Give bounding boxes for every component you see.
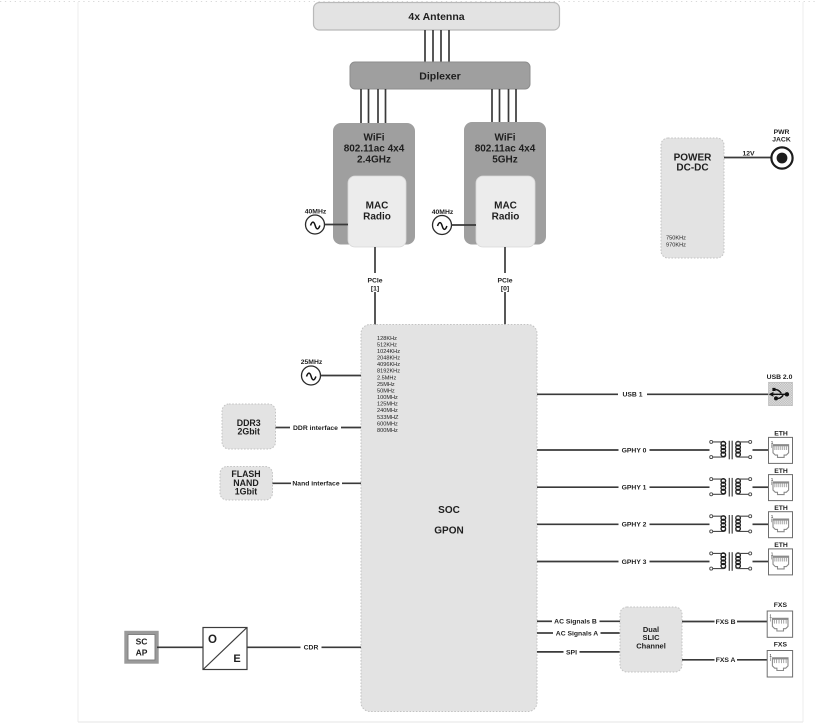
svg-text:AC Signals B: AC Signals B xyxy=(554,619,597,626)
svg-text:750KHz: 750KHz xyxy=(666,235,686,241)
wire: FXS B left segment xyxy=(682,621,715,623)
svg-text:128KHz: 128KHz xyxy=(377,336,397,342)
svg-text:12V: 12V xyxy=(742,150,755,157)
wire: diplexer to WiFi 5GHz 4 xyxy=(515,89,517,122)
wire: antenna feed 3 xyxy=(440,30,442,62)
svg-text:PCIe: PCIe xyxy=(367,277,382,284)
svg-text:25MHz: 25MHz xyxy=(377,382,395,388)
svg-text:600MHz: 600MHz xyxy=(377,421,398,427)
svg-text:GPHY 3: GPHY 3 xyxy=(622,559,647,566)
svg-text:AP: AP xyxy=(136,647,148,657)
svg-text:CDR: CDR xyxy=(304,645,319,652)
block: WiFi 802.11ac 4x4 5GHz xyxy=(464,122,546,245)
connector: SC AP optical connector xyxy=(126,633,157,663)
svg-text:1: 1 xyxy=(771,514,774,519)
wire: 12V power rail xyxy=(724,157,771,159)
wire: 40MHz osc to MAC Radio 2.4GHz xyxy=(325,224,349,226)
wire: USB 1 right segment xyxy=(647,393,769,395)
svg-text:4x Antenna: 4x Antenna xyxy=(408,11,464,23)
svg-text:PCIe: PCIe xyxy=(497,277,512,284)
wire: antenna feed 1 xyxy=(424,30,426,62)
connector: ETH jack 1 xyxy=(769,468,793,501)
svg-text:WiFi: WiFi xyxy=(363,133,384,144)
svg-text:ETH: ETH xyxy=(774,431,788,438)
block: MAC Radio (5GHz) xyxy=(476,176,535,247)
svg-text:25MHz: 25MHz xyxy=(301,359,323,366)
svg-text:Nand interface: Nand interface xyxy=(292,481,339,488)
svg-text:E: E xyxy=(233,653,240,665)
wire: SPI left segment xyxy=(537,651,564,653)
wire: diplexer to WiFi 2.4GHz 2 xyxy=(368,89,370,123)
wire: transformer to ETH jack 3 xyxy=(753,561,769,563)
wire: diplexer to WiFi 5GHz 3 xyxy=(508,89,510,122)
connector: ETH jack 3 xyxy=(769,542,793,575)
wire: transformer to ETH jack 1 xyxy=(753,486,769,488)
wire: AC Signals A right segment xyxy=(601,632,621,634)
wire: Nand bus right segment xyxy=(342,482,361,484)
block: Diplexer xyxy=(350,62,530,89)
svg-text:ETH: ETH xyxy=(774,468,788,475)
wire: SC AP to O/E xyxy=(157,646,203,648)
wire: diplexer to WiFi 2.4GHz 4 xyxy=(385,89,387,123)
block: POWER DC-DC xyxy=(661,138,724,258)
wire: AC Signals B left segment xyxy=(537,620,552,622)
svg-text:1: 1 xyxy=(771,477,774,482)
wire: USB 1 left segment xyxy=(537,393,618,395)
svg-text:GPHY 1: GPHY 1 xyxy=(622,485,647,492)
wire: DDR bus left segment xyxy=(276,427,291,429)
block: MAC Radio (2.4GHz) xyxy=(348,176,406,247)
connector: ETH jack 0 xyxy=(769,431,793,464)
svg-text:1: 1 xyxy=(769,613,772,618)
svg-text:GPHY 0: GPHY 0 xyxy=(622,447,647,454)
svg-text:1: 1 xyxy=(769,653,772,658)
wire: PCIe [1] link xyxy=(374,247,376,325)
svg-text:2Gbit: 2Gbit xyxy=(237,427,260,437)
wire: AC Signals A left segment xyxy=(537,632,553,634)
wire: 25MHz osc to SOC xyxy=(321,375,362,377)
block: WiFi 802.11ac 4x4 2.4GHz xyxy=(333,123,415,245)
wire: AC Signals B right segment xyxy=(600,620,621,622)
connector: USB 2.0 port xyxy=(767,374,793,406)
block: SOC GPON xyxy=(361,325,537,712)
wire: SPI right segment xyxy=(580,651,621,653)
svg-text:2.4GHz: 2.4GHz xyxy=(357,155,391,166)
wire: GPHY 1 to transformer xyxy=(650,486,710,488)
svg-text:970KHz: 970KHz xyxy=(666,242,686,248)
svg-text:2.5MHz: 2.5MHz xyxy=(377,375,396,381)
svg-text:SPI: SPI xyxy=(566,649,577,656)
wire: DDR bus right segment xyxy=(341,427,361,429)
transformer: GPHY 0 magnetics xyxy=(710,440,752,459)
svg-text:[0]: [0] xyxy=(501,285,509,292)
wire: Nand bus left segment xyxy=(273,482,292,484)
transformer: GPHY 2 magnetics xyxy=(710,515,752,534)
svg-text:USB 2.0: USB 2.0 xyxy=(767,374,793,381)
wire: GPHY 3 left segment xyxy=(537,561,619,563)
wire: CDR right segment xyxy=(322,646,362,648)
label: PCIe [0] xyxy=(496,273,514,292)
svg-text:1: 1 xyxy=(771,551,774,556)
svg-text:FXS: FXS xyxy=(774,641,788,648)
wire: diplexer to WiFi 5GHz 1 xyxy=(491,89,493,122)
svg-text:MAC: MAC xyxy=(494,201,517,212)
svg-text:FXS: FXS xyxy=(774,602,788,609)
svg-text:Radio: Radio xyxy=(492,212,520,223)
wire: antenna feed 2 xyxy=(432,30,434,62)
wire: GPHY 2 to transformer xyxy=(650,523,710,525)
svg-text:GPHY 2: GPHY 2 xyxy=(622,522,647,529)
wire: FXS A left segment xyxy=(682,659,715,661)
svg-text:240MHz: 240MHz xyxy=(377,408,398,414)
svg-text:50MHz: 50MHz xyxy=(377,388,395,394)
wire: diplexer to WiFi 2.4GHz 3 xyxy=(377,89,379,123)
svg-text:802.11ac 4x4: 802.11ac 4x4 xyxy=(344,144,405,155)
svg-text:SOC: SOC xyxy=(438,505,460,516)
connector: FXS jack A xyxy=(767,641,792,677)
svg-text:SC: SC xyxy=(136,636,148,646)
svg-text:[1]: [1] xyxy=(371,285,379,292)
svg-text:125MHz: 125MHz xyxy=(377,402,398,408)
svg-text:100MHz: 100MHz xyxy=(377,395,398,401)
block: DDR3 2Gbit xyxy=(222,404,276,449)
wire: FXS B right segment xyxy=(737,621,767,623)
oscillator: 40MHz crystal (5GHz radio) xyxy=(432,209,454,235)
svg-text:533MHZ: 533MHZ xyxy=(377,415,399,421)
svg-text:PWR: PWR xyxy=(774,129,790,136)
svg-text:GPON: GPON xyxy=(434,526,463,537)
svg-text:40MHz: 40MHz xyxy=(305,209,327,216)
wire: GPHY 2 left segment xyxy=(537,523,619,525)
svg-text:FXS A: FXS A xyxy=(716,657,736,664)
svg-text:DDR interface: DDR interface xyxy=(293,425,338,432)
svg-text:40MHz: 40MHz xyxy=(432,209,454,216)
svg-text:Channel: Channel xyxy=(636,641,666,650)
svg-text:ETH: ETH xyxy=(774,505,788,512)
connector: PWR JACK xyxy=(771,129,792,168)
wire: PCIe [0] link xyxy=(504,247,506,325)
wire: transformer to ETH jack 0 xyxy=(753,449,769,451)
block: Dual SLIC Channel xyxy=(620,607,682,672)
svg-text:800MHz: 800MHz xyxy=(377,428,398,434)
wire: transformer to ETH jack 2 xyxy=(753,523,769,525)
svg-text:2048KHz: 2048KHz xyxy=(377,356,400,362)
transformer: GPHY 1 magnetics xyxy=(710,478,752,497)
wire: 40MHz osc to MAC Radio 5GHz xyxy=(452,224,477,226)
svg-text:5GHz: 5GHz xyxy=(492,155,518,166)
svg-text:USB 1: USB 1 xyxy=(622,392,642,399)
connector: FXS jack B xyxy=(767,602,792,637)
wire: FXS A right segment xyxy=(737,659,767,661)
svg-text:512KHz: 512KHz xyxy=(377,342,397,348)
svg-text:802.11ac 4x4: 802.11ac 4x4 xyxy=(475,144,536,155)
label: PCIe [1] xyxy=(366,273,384,292)
svg-text:1: 1 xyxy=(771,440,774,445)
wire: diplexer to WiFi 2.4GHz 1 xyxy=(360,89,362,123)
wire: GPHY 1 left segment xyxy=(537,486,619,488)
svg-text:AC Signals A: AC Signals A xyxy=(556,630,599,637)
svg-text:O: O xyxy=(208,634,217,646)
wire: GPHY 0 to transformer xyxy=(650,449,710,451)
transformer: GPHY 3 magnetics xyxy=(710,552,752,571)
wire: diplexer to WiFi 5GHz 2 xyxy=(499,89,501,122)
wire: GPHY 0 left segment xyxy=(537,449,619,451)
svg-text:8192KHz: 8192KHz xyxy=(377,369,400,375)
svg-text:JACK: JACK xyxy=(772,136,791,143)
oscillator: 40MHz crystal (2.4GHz radio) xyxy=(305,209,327,234)
block: O/E optical transceiver xyxy=(203,628,247,670)
svg-text:DC-DC: DC-DC xyxy=(676,162,708,173)
svg-text:Diplexer: Diplexer xyxy=(419,71,460,83)
svg-text:1024KHz: 1024KHz xyxy=(377,349,400,355)
oscillator: 25MHz crystal (SOC) xyxy=(301,359,323,385)
svg-text:MAC: MAC xyxy=(366,201,389,212)
connector: ETH jack 2 xyxy=(769,505,793,538)
svg-text:WiFi: WiFi xyxy=(494,133,515,144)
wire: GPHY 3 to transformer xyxy=(650,561,710,563)
svg-text:FXS B: FXS B xyxy=(716,619,736,626)
svg-text:1Gbit: 1Gbit xyxy=(235,487,258,497)
svg-text:ETH: ETH xyxy=(774,542,788,549)
svg-text:4096KHz: 4096KHz xyxy=(377,362,400,368)
wire: CDR left segment xyxy=(247,646,301,648)
block: 4x Antenna xyxy=(314,3,560,31)
wire: antenna feed 4 xyxy=(448,30,450,62)
svg-text:Radio: Radio xyxy=(363,212,391,223)
block: FLASH NAND 1Gbit xyxy=(220,467,273,501)
